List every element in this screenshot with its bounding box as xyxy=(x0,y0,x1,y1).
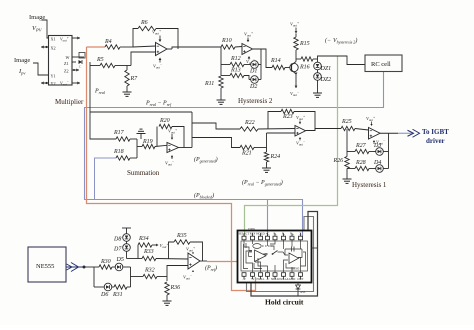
svg-text:X1: X1 xyxy=(51,37,56,42)
svg-text:DZ1: DZ1 xyxy=(320,66,332,72)
svg-text:D3: D3 xyxy=(373,143,381,149)
svg-text:R12: R12 xyxy=(230,56,241,62)
svg-text:R25: R25 xyxy=(341,119,352,125)
svg-text:GND: GND xyxy=(289,277,296,281)
svg-text:R17: R17 xyxy=(113,130,125,136)
svg-text:Z1: Z1 xyxy=(64,61,69,66)
svg-text:W: W xyxy=(66,55,70,60)
svg-text:Z2: Z2 xyxy=(64,69,69,74)
svg-text:D5: D5 xyxy=(116,257,124,263)
svg-text:Preal: Preal xyxy=(94,89,106,95)
svg-text:Hysteresis 2: Hysteresis 2 xyxy=(238,97,273,105)
svg-text:R23: R23 xyxy=(282,114,293,120)
svg-text:Y2: Y2 xyxy=(51,81,56,86)
svg-text:R30: R30 xyxy=(100,259,111,265)
svg-text:RC cell: RC cell xyxy=(371,61,391,68)
svg-text:R7: R7 xyxy=(130,76,139,82)
svg-text:DZ2: DZ2 xyxy=(320,77,332,83)
svg-text:To IGBT: To IGBT xyxy=(422,128,449,136)
svg-text:R18: R18 xyxy=(113,149,124,155)
svg-text:Image: Image xyxy=(14,57,30,64)
svg-text:D7: D7 xyxy=(113,247,122,253)
svg-text:R32: R32 xyxy=(144,268,155,274)
svg-text:(−: (− xyxy=(325,37,331,44)
svg-text:Summation: Summation xyxy=(127,169,160,177)
svg-text:R21: R21 xyxy=(241,151,252,157)
svg-text:R27: R27 xyxy=(355,143,367,149)
svg-text:R24: R24 xyxy=(270,153,281,160)
svg-text:R15: R15 xyxy=(299,41,310,47)
svg-text:D1: D1 xyxy=(249,69,257,75)
svg-text:433: 433 xyxy=(300,290,306,294)
svg-text:R28: R28 xyxy=(355,160,366,166)
svg-text:D6: D6 xyxy=(100,292,108,298)
svg-text:X2: X2 xyxy=(51,46,56,51)
svg-text:R13: R13 xyxy=(230,68,241,74)
svg-text:Multiplier: Multiplier xyxy=(55,98,84,106)
svg-text:R22: R22 xyxy=(244,120,255,126)
svg-text:R14: R14 xyxy=(270,57,281,64)
svg-text:R26: R26 xyxy=(333,158,344,164)
svg-text:D4: D4 xyxy=(373,159,381,166)
svg-text:R6: R6 xyxy=(140,20,148,26)
svg-text:D2: D2 xyxy=(249,84,257,90)
svg-text:Hysteresis 1: Hysteresis 1 xyxy=(352,181,387,189)
svg-text:C: C xyxy=(79,65,81,69)
svg-text:Preal − Pref: Preal − Pref xyxy=(145,101,172,107)
svg-text:R11: R11 xyxy=(204,81,214,87)
svg-text:NE555: NE555 xyxy=(36,263,54,270)
svg-text:R20: R20 xyxy=(159,118,170,124)
svg-text:D8: D8 xyxy=(113,237,121,243)
svg-text:R19: R19 xyxy=(142,139,153,145)
svg-text:R4: R4 xyxy=(104,38,112,45)
svg-text:R33: R33 xyxy=(143,249,154,255)
svg-text:R10: R10 xyxy=(221,38,232,44)
svg-text:driver: driver xyxy=(426,137,445,145)
svg-text:Hold circuit: Hold circuit xyxy=(265,297,304,306)
svg-text:R34: R34 xyxy=(138,235,149,242)
svg-text:R5: R5 xyxy=(96,57,104,63)
svg-text:Y1: Y1 xyxy=(51,74,56,79)
svg-text:R35: R35 xyxy=(176,233,187,239)
svg-text:R31: R31 xyxy=(112,292,123,298)
svg-text:HOLD: HOLD xyxy=(256,232,265,236)
svg-text:R16: R16 xyxy=(299,65,310,71)
svg-text:NULLA: NULLA xyxy=(278,277,289,281)
svg-text:U90K: U90K xyxy=(248,227,256,231)
svg-text:R36: R36 xyxy=(170,285,181,291)
